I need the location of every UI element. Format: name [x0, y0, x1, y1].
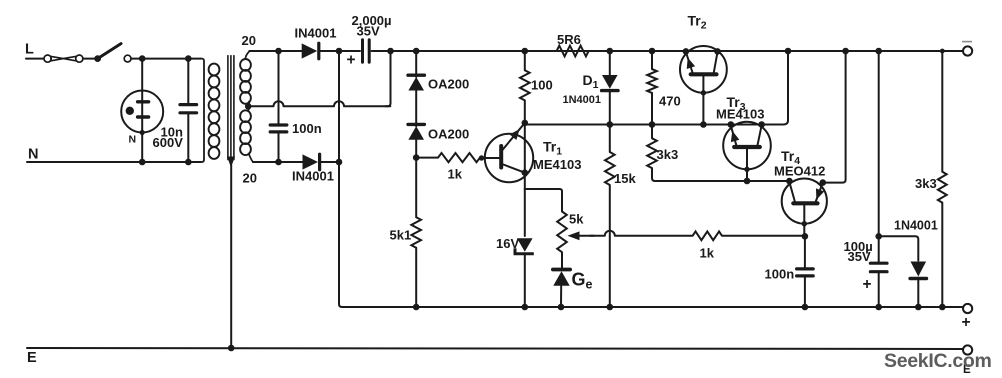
svg-text:L: L [25, 42, 34, 58]
label 1N4001 D1 [563, 94, 602, 106]
resistor R4 3k3 [647, 138, 657, 168]
svg-text:+: + [347, 52, 356, 69]
svg-text:5R6: 5R6 [557, 32, 581, 47]
label ME4103 Tr3 [716, 107, 764, 122]
svg-text:+: + [863, 276, 872, 293]
label Ge [572, 270, 593, 292]
node lower diode out [336, 159, 343, 166]
capacitor C3 100n [797, 269, 814, 276]
node bot-100n [802, 304, 809, 311]
resistor R9 15k [605, 152, 615, 185]
label 5k [569, 212, 584, 227]
transformer secondary top winding [240, 51, 251, 106]
svg-text:ME4103: ME4103 [533, 157, 581, 172]
svg-text:E: E [27, 350, 37, 366]
label 20 top [242, 33, 256, 48]
wire node to C1 [339, 50, 360, 52]
node Tr4 circle bottom [802, 221, 807, 226]
node Tr1 base [479, 155, 484, 160]
node bot-3k3 [939, 304, 946, 311]
node mid-470 [649, 121, 656, 128]
node bot-D4 [915, 304, 922, 311]
label plus C1 [347, 52, 356, 69]
wire 100u to rail [878, 273, 880, 307]
switch S1 contact dot [94, 55, 101, 62]
node rail-D1 [607, 48, 614, 55]
node Tr1 collector [522, 120, 529, 127]
svg-text:35V: 35V [357, 24, 380, 39]
wire D1 top [609, 51, 611, 76]
label ME4103 Tr1 [533, 157, 581, 172]
wire 100 to node [524, 100, 526, 124]
node Tr4 emitter-rail wire [820, 179, 827, 186]
wire branch to D4 [879, 236, 919, 260]
label Tr3 [727, 94, 746, 113]
terminal minus [963, 46, 972, 55]
svg-text:1k: 1k [700, 246, 715, 261]
svg-text:1N4001: 1N4001 [563, 94, 602, 106]
svg-text:600V: 600V [153, 135, 184, 150]
label 100 [531, 78, 553, 93]
capacitor C4 100u 35V [870, 263, 887, 272]
label 100n right [765, 267, 795, 282]
label E [27, 350, 37, 366]
capacitor C1 2000u 35V [363, 40, 370, 62]
wire 3k3r to rail [941, 203, 943, 307]
diode D2 1N4001 [302, 43, 319, 59]
node 100n-lower wire [275, 159, 282, 166]
wire node to 3k3 [651, 125, 653, 139]
wire D3 to node [320, 161, 339, 163]
watermark SeekIC.com [884, 350, 992, 372]
label 16V [496, 236, 519, 251]
transistor Tr4 MEO412 [782, 179, 827, 236]
transistor Tr2 [680, 46, 727, 125]
svg-text:3k3: 3k3 [915, 176, 937, 191]
wire 470 to node [651, 93, 653, 125]
node bot-Ge [558, 304, 565, 311]
top rail [391, 50, 964, 52]
svg-text:5k: 5k [569, 212, 584, 227]
node L-plug [139, 55, 146, 62]
wire 5k1 to rail [415, 248, 417, 307]
label Tr2 [688, 13, 707, 32]
wire plug top [141, 59, 143, 91]
label 35V right [848, 249, 871, 264]
fuse bowtie [51, 56, 76, 60]
earth line [27, 348, 963, 349]
wire rail to 100 [524, 51, 526, 70]
label MEO412 Tr4 [774, 164, 825, 179]
wire L input [26, 58, 44, 60]
wire node to 15k [609, 125, 611, 153]
label 470 [659, 94, 681, 109]
switch S1 pole circle b [76, 55, 83, 62]
node rail-788 [785, 48, 792, 55]
svg-text:20: 20 [242, 33, 256, 48]
label 1k left [448, 167, 463, 182]
wire plug to N [141, 133, 143, 163]
wire N line [27, 161, 201, 163]
label L [25, 42, 34, 58]
node OA-1k [413, 154, 420, 161]
label 1k right [700, 246, 715, 261]
svg-text:20: 20 [243, 171, 257, 186]
wire 15k to rail [609, 185, 611, 307]
minus mark [962, 41, 972, 43]
svg-text:+: + [962, 314, 971, 331]
svg-text:35V: 35V [848, 249, 871, 264]
svg-text:1N4001: 1N4001 [894, 219, 938, 233]
node mid-Tr3c [758, 121, 765, 128]
wire mid line [525, 51, 788, 125]
wire L to transformer [131, 58, 201, 60]
node rail-100 [522, 48, 529, 55]
node screen-earth [228, 345, 235, 352]
label plus 100u [863, 276, 872, 293]
wire rectifier output vertical [339, 51, 342, 307]
node bot-5k1 [413, 304, 420, 311]
label Tr1 [543, 139, 562, 158]
svg-text:3k3: 3k3 [657, 147, 679, 162]
node plug bottom [140, 130, 145, 135]
bottom rail [342, 306, 963, 308]
node bot-Tr1 [522, 304, 529, 311]
node Tr4 collector [786, 178, 793, 185]
svg-text:OA200: OA200 [428, 127, 469, 142]
capacitor 10n 600V [180, 105, 197, 113]
label 2000u [352, 13, 392, 28]
node rail-Tr2c [714, 48, 721, 55]
zener D7 16V [515, 238, 534, 254]
node mid-Tr3e [728, 121, 735, 128]
wire 100n bottom [278, 134, 280, 163]
label N (plug) [129, 134, 137, 146]
label IN4001 bottom [292, 169, 334, 184]
terminal plus [963, 304, 972, 313]
node L-cap [185, 55, 192, 62]
label Tr4 [781, 148, 800, 167]
svg-text:MEO412: MEO412 [774, 164, 825, 179]
diode D4 1N4001 [910, 262, 926, 279]
transformer core [228, 56, 234, 160]
switch S1 lever [98, 44, 121, 59]
node C1 right [387, 48, 394, 55]
wire Tr1 to zener [524, 189, 526, 236]
node rail-OA200 [413, 48, 420, 55]
wire D1 to node [609, 91, 611, 125]
node Tr4 base-100n [802, 233, 809, 240]
label 3k3 right [915, 176, 937, 191]
resistor R8 1k [693, 231, 722, 240]
wire cap10n top [187, 59, 189, 103]
node centre tap [245, 103, 252, 110]
resistor R10 3k3 [938, 172, 947, 203]
svg-text:N: N [28, 147, 38, 163]
label 5R6 [557, 32, 581, 47]
switch S1 open contact [124, 55, 131, 62]
node 100u-D4 branch [875, 233, 882, 240]
node top-100n [275, 48, 282, 55]
svg-text:470: 470 [659, 94, 681, 109]
wire cap10n bottom [187, 114, 189, 162]
node rail-100u [875, 48, 882, 55]
svg-text:5k1: 5k1 [390, 228, 412, 243]
node plug-N [139, 159, 146, 166]
resistor R7 5k pot [557, 212, 567, 253]
label E terminal [963, 364, 971, 376]
transformer primary winding [209, 64, 220, 159]
label N [28, 147, 38, 163]
node Tr2 circle bottom [701, 90, 706, 95]
resistor R5 1k [438, 153, 480, 162]
transistor Tr1 ME4103 [480, 123, 533, 182]
label D1 [583, 72, 599, 91]
svg-text:15k: 15k [614, 171, 636, 186]
node Tr3 base-line [744, 178, 751, 185]
label OA200 lower [428, 127, 469, 142]
wire D4 to rail [917, 279, 919, 308]
resistor 5R6 [557, 46, 589, 57]
resistor R6 5k1 [411, 217, 421, 248]
wire 3k3 corner [652, 168, 655, 181]
diode D1 1N4001 [602, 75, 618, 91]
label 1N4001 right [894, 219, 938, 233]
wire node to 1k [416, 157, 438, 159]
wire C1 to rail [372, 50, 391, 52]
diode D3 1N4001 [303, 154, 320, 170]
wire 100n top [278, 51, 280, 123]
wire OA down [415, 158, 417, 218]
wire 100n to rail [804, 278, 806, 308]
node bot-15k [607, 304, 614, 311]
node rail-Tr2e [683, 48, 690, 55]
label 15k [614, 171, 636, 186]
pot wiper arrow [568, 231, 595, 240]
svg-text:N: N [129, 134, 137, 146]
resistor R2 100 [520, 70, 530, 100]
wire D2 to node [320, 50, 340, 52]
wire wiper line [590, 231, 693, 236]
svg-text:1k: 1k [448, 167, 463, 182]
node Tr1 emitter [522, 169, 529, 176]
wire screen to earth [230, 165, 232, 348]
wire OA mid [415, 91, 417, 127]
label IN4001 top [295, 26, 337, 41]
plug outlet symbol [121, 91, 163, 133]
wire Ge bottom [560, 285, 562, 307]
diode D5 OA200 [408, 75, 424, 90]
wire 1k to Tr4 base [722, 235, 805, 237]
label 35V [357, 24, 380, 39]
label 3k3 left [657, 147, 679, 162]
wire secondary bottom to D3 [253, 161, 304, 163]
label 10n [161, 125, 183, 140]
wire OA to 1k [415, 140, 417, 158]
node rail-3k3 [940, 49, 945, 54]
transformer screen arrow [227, 157, 235, 168]
wire switch [83, 58, 94, 60]
svg-text:100n: 100n [765, 267, 795, 282]
node rectifier output top [336, 48, 343, 55]
transformer primary lead [201, 59, 204, 162]
svg-text:100: 100 [531, 78, 553, 93]
diode D6 OA200 [408, 124, 424, 139]
node cap10n-N [185, 159, 192, 166]
terminal E [963, 345, 972, 354]
capacitor C2 100n [270, 125, 287, 132]
wire zener to rail [524, 254, 526, 307]
switch S1 pole circle a [44, 55, 51, 62]
svg-text:OA200: OA200 [428, 77, 469, 92]
wire Tr4 collector to rail [823, 51, 846, 183]
svg-text:ME4103: ME4103 [716, 107, 764, 122]
label 5k1 [390, 228, 412, 243]
wire Tr4 base to 100n [804, 236, 806, 267]
wire secondary top to D2 [250, 50, 303, 52]
transistor Tr3 ME4103 [723, 122, 771, 181]
svg-text:SeekIC.com: SeekIC.com [884, 350, 992, 372]
wire rail to 470 [651, 51, 653, 69]
node Tr3 circle bottom [744, 167, 749, 172]
wire Ge top [561, 252, 563, 269]
wire rail to 100u [878, 51, 880, 262]
wire OA top [415, 51, 417, 77]
svg-text:100n: 100n [292, 121, 322, 136]
wire rail to 3k3r [941, 51, 943, 172]
label OA200 upper [428, 77, 469, 92]
node rail-845 [842, 48, 849, 55]
svg-text:IN4001: IN4001 [295, 26, 337, 41]
label 100u [844, 239, 873, 254]
label 20 bottom [243, 171, 257, 186]
label plus terminal [962, 314, 971, 331]
node rail-470 [649, 48, 656, 55]
node mid-Tr2base [700, 121, 707, 128]
label 100n left [292, 121, 322, 136]
node D1-15k [607, 121, 614, 128]
label 600V [153, 135, 184, 150]
wire emitter to pot [525, 189, 562, 212]
wire Tr4 line [655, 180, 789, 182]
transformer secondary bottom winding [240, 106, 253, 162]
svg-text:IN4001: IN4001 [292, 169, 334, 184]
wire Tr1 emitter down [524, 123, 526, 189]
diode D8 Ge [553, 270, 570, 286]
wire centre tap [248, 51, 390, 106]
node bot-100u [875, 304, 882, 311]
resistor R3 470 [647, 69, 657, 93]
